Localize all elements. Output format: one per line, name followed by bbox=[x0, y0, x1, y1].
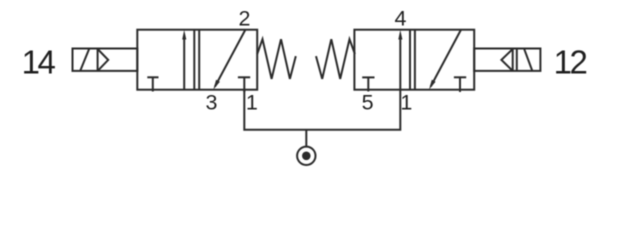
solenoid actuator Y1 box bbox=[73, 49, 138, 71]
wire port 1 manifold U bbox=[244, 90, 400, 130]
pilot triangle right bbox=[501, 49, 512, 71]
valve V2 flow arrow up bbox=[399, 39, 401, 90]
svg-text:1: 1 bbox=[400, 90, 412, 114]
solenoid actuator Y2 divider bbox=[516, 49, 518, 71]
spring right bbox=[316, 39, 355, 79]
valve V2 flow diagonal bbox=[431, 30, 461, 87]
svg-text:4: 4 bbox=[395, 6, 407, 30]
pressure source dot bbox=[302, 152, 311, 161]
valve V1 chamber divider line b bbox=[198, 30, 200, 90]
valve V2 blocked port T right chamber bbox=[454, 76, 466, 78]
valve V1 flow arrow up bbox=[183, 39, 185, 90]
pilot triangle left bbox=[98, 49, 109, 71]
pressure source circle bbox=[297, 147, 315, 165]
spring left bbox=[257, 39, 296, 79]
svg-text:1: 1 bbox=[246, 90, 258, 114]
valve V1 blocked port T left chamber bbox=[147, 76, 158, 78]
svg-text:2: 2 bbox=[239, 6, 251, 30]
valve V1 chamber divider line a bbox=[193, 30, 195, 90]
valve V2 body bbox=[354, 30, 474, 90]
pilot triangle base line right bbox=[512, 49, 514, 71]
valve V2 chamber divider line b bbox=[414, 30, 416, 90]
solenoid coil diagonal right bbox=[524, 49, 532, 71]
svg-text:12: 12 bbox=[554, 44, 587, 81]
svg-text:3: 3 bbox=[206, 90, 218, 114]
svg-text:5: 5 bbox=[362, 90, 374, 114]
solenoid coil diagonal left bbox=[80, 49, 89, 71]
solenoid actuator Y2 box bbox=[474, 49, 540, 71]
solenoid actuator Y1 divider bbox=[97, 49, 99, 71]
valve V2 blocked port T left chamber bbox=[362, 76, 374, 78]
valve V1 flow diagonal 2 to 3 bbox=[215, 30, 245, 87]
valve V2 chamber divider line a bbox=[409, 30, 411, 90]
valve V1 body bbox=[137, 30, 257, 90]
svg-text:14: 14 bbox=[22, 44, 56, 81]
wire pressure source stem bbox=[305, 130, 307, 146]
valve V1 blocked port T right chamber bbox=[238, 76, 250, 78]
